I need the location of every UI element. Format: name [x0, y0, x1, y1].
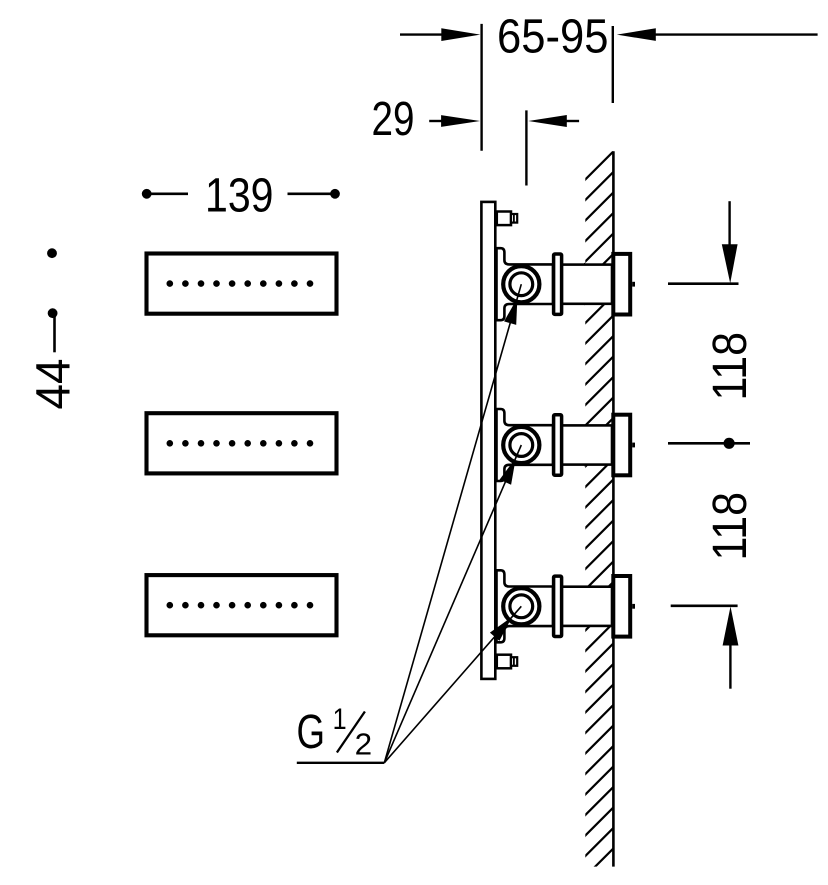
leader line to valve 1	[384, 284, 521, 763]
dimension 139: right dot	[330, 189, 340, 199]
leader line to valve 2	[384, 445, 521, 763]
dimension 65-95: left extension line	[480, 24, 482, 151]
svg-text:44: 44	[28, 359, 81, 410]
wall outlet cap 3	[613, 576, 635, 637]
dimension 139: left dot	[142, 189, 152, 199]
valve body 3 (side view)	[497, 570, 613, 642]
wall finished-surface edge line	[612, 151, 615, 866]
valve body 1 (side view)	[497, 248, 613, 320]
dimension 44: bottom dot	[48, 308, 58, 318]
dimension 65-95: left arrow	[400, 33, 446, 35]
top fixing screw	[497, 212, 517, 226]
wall section with hatching	[578, 145, 620, 884]
mounting plate (side view)	[481, 202, 495, 679]
leader arrowhead 3	[490, 617, 512, 641]
leader line to valve 3	[384, 606, 521, 763]
svg-text:2: 2	[355, 727, 373, 762]
svg-text:1: 1	[333, 703, 347, 736]
dimension 44: segment	[53, 317, 56, 353]
svg-text:139: 139	[205, 170, 274, 223]
svg-text:29: 29	[372, 93, 415, 146]
dimension dot at valve 2 centre	[724, 438, 735, 449]
thread label G 1/2	[297, 703, 373, 762]
G1/2 label underline	[297, 762, 385, 764]
svg-text:65-95: 65-95	[497, 10, 609, 63]
dimension 29: right arrow	[564, 120, 579, 122]
valve body 2 (side view)	[497, 409, 613, 481]
wall outlet cap 2	[613, 415, 635, 476]
dimension line at valve 3 centre	[671, 604, 738, 607]
leader arrowhead 2	[500, 458, 516, 485]
dimension 29: extension line	[525, 110, 527, 185]
trim plate 1 (front view) with outlet holes	[147, 254, 337, 314]
svg-text:118: 118	[704, 492, 757, 561]
dimension 29: left arrow	[429, 120, 445, 122]
dimension 65-95: right extension line	[612, 26, 614, 103]
leader arrowhead 1	[504, 298, 517, 325]
svg-text:118: 118	[704, 332, 757, 401]
dimension 139: left segment	[150, 193, 188, 196]
wall outlet cap 1	[613, 254, 635, 315]
dimension 118 top: down arrow	[728, 201, 730, 248]
trim plate 2 (front view) with outlet holes	[147, 413, 337, 473]
trim plate 3 (front view) with outlet holes	[147, 575, 337, 635]
dimension 65-95: right arrow	[652, 33, 818, 35]
dimension 44: top dot	[47, 248, 57, 258]
dimension 139: right segment	[288, 193, 332, 196]
dimension line at valve 2 centre	[668, 442, 750, 445]
bottom fixing screw	[497, 655, 517, 669]
dimension 118 bottom: up arrow	[723, 607, 739, 646]
svg-text:G: G	[297, 706, 326, 759]
dimension line at valve 1 centre	[668, 282, 739, 285]
